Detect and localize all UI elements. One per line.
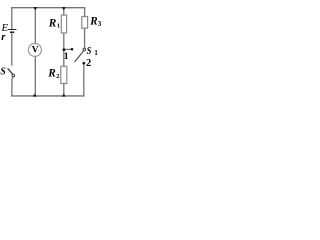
switch S contact circle xyxy=(12,74,15,77)
junction dot top of R1 branch xyxy=(62,7,66,11)
switch S blade xyxy=(8,68,13,74)
wire node 1 to R2 xyxy=(63,50,65,66)
svg-text:1: 1 xyxy=(64,52,69,62)
wire node 2 to bottom xyxy=(83,63,85,96)
wire left middle (battery to switch S) xyxy=(11,33,13,65)
svg-text:1: 1 xyxy=(94,50,98,57)
wire right upper (top to R3) xyxy=(84,8,86,17)
svg-text:2: 2 xyxy=(56,73,59,80)
wire R1 to node 1 xyxy=(63,33,65,50)
wire top xyxy=(12,7,85,9)
svg-text:3: 3 xyxy=(98,20,101,28)
resistor R3 box xyxy=(82,17,88,29)
node 1 junction dot xyxy=(63,48,66,51)
bottom junction dot voltmeter branch xyxy=(33,94,37,97)
wire bottom xyxy=(12,95,84,97)
wire R2 to bottom xyxy=(63,84,65,96)
resistor R2 box xyxy=(61,66,67,83)
svg-text:S: S xyxy=(87,45,92,57)
wire left lower (switch to bottom) xyxy=(12,77,13,96)
wire voltmeter branch lower xyxy=(34,56,36,96)
svg-text:R: R xyxy=(47,68,56,80)
wire R3 to switch S1 xyxy=(84,28,86,48)
node 2 dot xyxy=(82,62,85,65)
svg-text:2: 2 xyxy=(86,58,91,69)
switch S1 blade xyxy=(74,51,83,62)
wire node 1 stub to contact 1 xyxy=(64,48,72,50)
wire voltmeter branch upper xyxy=(34,8,36,44)
contact 1 dot xyxy=(71,48,74,51)
wire left upper (to battery) xyxy=(11,8,13,30)
resistor R1 box xyxy=(61,15,66,33)
switch S1 contact circle xyxy=(83,48,86,51)
svg-text:V: V xyxy=(32,46,39,56)
battery long plate xyxy=(8,29,16,31)
voltmeter V circle xyxy=(28,43,41,56)
battery short plate xyxy=(10,31,14,33)
junction dot top of voltmeter branch xyxy=(33,7,37,11)
svg-text:R: R xyxy=(48,17,57,29)
bottom junction dot R2 branch xyxy=(62,94,66,97)
svg-text:1: 1 xyxy=(57,23,60,30)
svg-text:S: S xyxy=(0,66,6,78)
wire R1 branch upper xyxy=(63,8,65,15)
